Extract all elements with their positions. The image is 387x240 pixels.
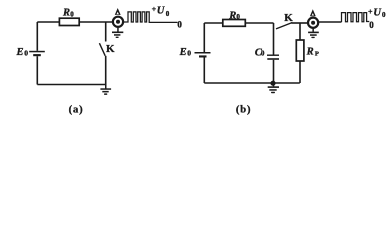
ammeter A (b) bbox=[308, 18, 318, 28]
wire: (a) switch upper stub bbox=[105, 22, 107, 42]
label R_P bbox=[306, 47, 319, 58]
ground (b) bottom bbox=[268, 83, 279, 93]
node: junction dot on (b) bottom wire bbox=[270, 81, 275, 86]
svg-text:0: 0 bbox=[177, 20, 182, 30]
switch K (a) blade bbox=[99, 43, 105, 56]
label R0 (a) bbox=[62, 8, 74, 19]
svg-text:+: + bbox=[368, 8, 373, 17]
ground (a) bottom bbox=[100, 85, 111, 95]
label +U0 (a) bbox=[152, 5, 170, 18]
wire: (a) left vertical wire bbox=[36, 22, 38, 51]
wire: (a) switch lower wire bbox=[105, 56, 107, 85]
label K (a) bbox=[106, 43, 115, 55]
wire: (a) bottom wire bbox=[37, 84, 105, 86]
switch K (b) blade bbox=[276, 23, 292, 29]
resistor R0 (b) bbox=[223, 20, 246, 27]
waveform pulses (a) bbox=[125, 12, 178, 23]
ammeter A (a) bbox=[113, 17, 123, 27]
resistor R0 (a) bbox=[59, 18, 79, 25]
ground (b) under ammeter bbox=[308, 29, 319, 39]
label +U0 (b) bbox=[368, 8, 386, 19]
wire: (a) top wire bbox=[37, 21, 124, 23]
capacitor C0 bottom plate bbox=[267, 58, 279, 60]
svg-text:0: 0 bbox=[261, 51, 265, 58]
svg-text:K: K bbox=[106, 43, 115, 55]
wire: (b) ammeter to waveform bbox=[319, 21, 342, 23]
svg-text:E: E bbox=[179, 47, 187, 58]
svg-text:R: R bbox=[228, 10, 236, 21]
ground (a) under ammeter bbox=[112, 28, 123, 38]
capacitor C0 lower wire bbox=[273, 60, 275, 83]
svg-text:R: R bbox=[306, 47, 314, 58]
svg-text:0: 0 bbox=[187, 49, 191, 58]
label A (a) bbox=[115, 8, 121, 15]
svg-text:0: 0 bbox=[369, 20, 374, 30]
svg-text:0: 0 bbox=[166, 10, 170, 18]
capacitor C0 top plate bbox=[267, 55, 279, 56]
label E0 (a) bbox=[16, 47, 29, 58]
svg-text:0: 0 bbox=[70, 10, 74, 18]
resistor R_P bbox=[296, 40, 304, 61]
svg-text:(b): (b) bbox=[236, 105, 252, 116]
wire: (b) battery bottom to corner bbox=[203, 58, 205, 84]
label A (b) bbox=[310, 9, 316, 16]
capacitor C0 upper wire bbox=[273, 23, 275, 55]
battery E0 (a) long plate bbox=[29, 51, 45, 53]
svg-text:E: E bbox=[16, 47, 24, 58]
wire: (b) bottom wire bbox=[204, 82, 299, 84]
svg-text:0: 0 bbox=[382, 11, 386, 19]
svg-text:R: R bbox=[62, 8, 70, 19]
label 0 axis (b) bbox=[369, 20, 374, 30]
label 0 axis (a) bbox=[177, 20, 182, 30]
wire: R_P lower wire bbox=[299, 61, 301, 83]
label (a) caption bbox=[69, 105, 84, 116]
svg-text:0: 0 bbox=[236, 13, 240, 21]
wire: (b) top wire switch to ammeter bbox=[291, 22, 307, 24]
battery E0 (b) long plate bbox=[195, 52, 211, 54]
label K (b) bbox=[284, 12, 293, 24]
svg-text:K: K bbox=[284, 12, 293, 24]
label R0 (b) bbox=[228, 10, 240, 21]
wire: (b) top wire left of switch bbox=[204, 22, 273, 24]
wire: (b) left vertical wire bbox=[203, 23, 205, 52]
wire: R_P upper stub bbox=[299, 23, 301, 40]
battery E0 (b) short plate bbox=[199, 55, 207, 57]
label C0 bbox=[255, 47, 265, 58]
svg-text:P: P bbox=[315, 50, 319, 57]
battery E0 (a) short plate bbox=[33, 54, 41, 56]
label (b) caption bbox=[236, 105, 252, 116]
label E0 (b) bbox=[179, 47, 192, 58]
svg-text:(a): (a) bbox=[69, 105, 84, 116]
waveform pulses (b) bbox=[342, 13, 370, 22]
wire: (a) battery bottom to bottom-left corner bbox=[36, 56, 38, 84]
svg-text:0: 0 bbox=[24, 49, 28, 58]
